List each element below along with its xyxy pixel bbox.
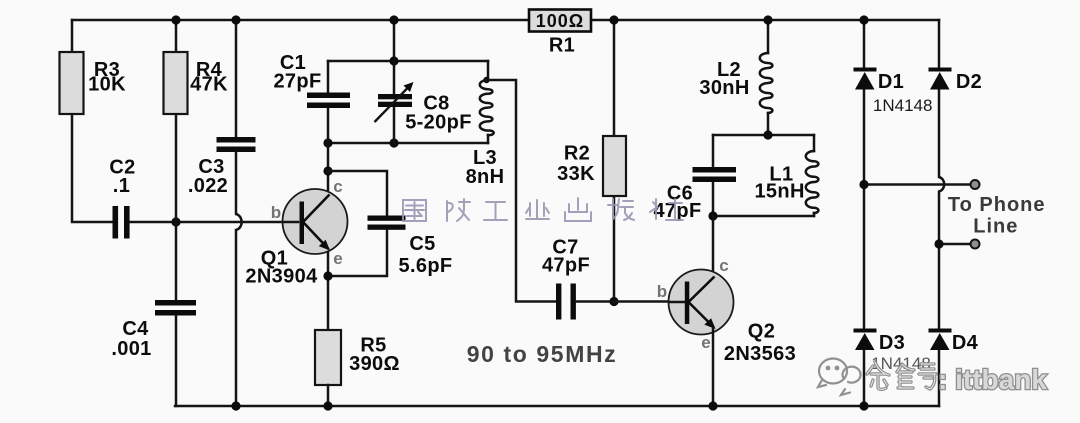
wire top rail right section — [591, 19, 939, 22]
svg-text:b: b — [271, 203, 281, 222]
svg-text:D2: D2 — [956, 71, 982, 93]
svg-text:390Ω: 390Ω — [349, 353, 400, 375]
terminal lower — [971, 240, 980, 249]
diode D2 — [929, 68, 983, 94]
wire L3 tap to C7 — [488, 80, 556, 302]
wire Q1 collector column — [327, 143, 330, 192]
wire C7 to base junction — [576, 300, 614, 303]
wire R2 column — [613, 20, 616, 302]
svg-text:D4: D4 — [952, 332, 979, 354]
svg-text:.022: .022 — [188, 175, 228, 197]
capacitor C2 — [109, 157, 135, 239]
node D1 at top rail — [859, 15, 868, 24]
capacitor C6 — [653, 167, 736, 222]
wire L2 column — [767, 20, 770, 53]
svg-text:10K: 10K — [88, 74, 126, 96]
wire tank feed from rail — [393, 20, 396, 61]
svg-text:33K: 33K — [557, 163, 595, 185]
resistor R1 — [529, 10, 591, 57]
svg-text:47pF: 47pF — [542, 255, 590, 277]
diode D3 — [854, 329, 906, 355]
capacitor C5 — [368, 216, 453, 278]
node tank bottom left — [323, 138, 332, 147]
node C3 line at top rail — [231, 15, 240, 24]
inductor L3 — [466, 61, 505, 188]
wire collector to C5 — [328, 171, 387, 215]
node tank top center — [389, 56, 398, 65]
svg-text:D3: D3 — [879, 332, 905, 354]
watermark chinese characters — [403, 198, 683, 221]
wire C5 bottom to emitter — [328, 230, 387, 276]
wire R4 column — [175, 20, 178, 300]
wire top rail left section — [72, 19, 529, 22]
svg-text:C5: C5 — [409, 233, 435, 255]
svg-text:C4: C4 — [122, 318, 149, 340]
wire C4 to bottom rail — [175, 316, 178, 406]
wire R5 to bottom rail — [327, 385, 330, 406]
wire C8 column — [393, 61, 396, 143]
node phone tap lower at D2 column — [934, 239, 943, 248]
wire base feed to Q2 — [614, 300, 684, 303]
wire phone tap upper — [864, 183, 969, 186]
svg-text:e: e — [701, 333, 710, 352]
svg-text:5.6pF: 5.6pF — [399, 255, 453, 277]
capacitor C1 — [273, 52, 350, 108]
resistor R4 — [164, 52, 229, 114]
capacitor C3 — [188, 137, 256, 197]
capacitor C8 variable — [375, 82, 472, 134]
svg-text:To Phone: To Phone — [948, 194, 1046, 216]
svg-text:15nH: 15nH — [754, 181, 804, 203]
wire Q2 collector column — [712, 216, 715, 274]
wire C3 column upper — [235, 20, 238, 137]
node D1/D3 at bottom rail — [859, 401, 868, 410]
watermark wechat icon — [818, 359, 861, 396]
diode D4 — [929, 329, 979, 355]
terminal upper — [971, 180, 980, 189]
svg-text:30nH: 30nH — [699, 77, 749, 99]
node C3 line at bottom rail — [231, 401, 240, 410]
wire C3 column lower with hop over base wire — [236, 152, 242, 406]
svg-text:8nH: 8nH — [466, 166, 505, 188]
node L2 bottom junction — [763, 130, 772, 139]
wire D2/D4 column with hop over phone tap — [939, 20, 944, 406]
wire left column through R3 — [72, 20, 112, 222]
svg-text:c: c — [333, 177, 342, 196]
svg-text:.1: .1 — [113, 175, 130, 197]
wire C6/L1 bottom link — [713, 215, 814, 218]
svg-text:.001: .001 — [111, 338, 151, 360]
node emitter junction — [323, 271, 332, 280]
node tank bottom center — [389, 138, 398, 147]
resistor R2 — [557, 136, 626, 196]
watermark wechat id text — [867, 362, 936, 389]
node Q2 emitter at bottom rail — [708, 401, 717, 410]
wire Q1 emitter column — [327, 252, 330, 330]
node junction R4/C4 line with base wire — [171, 217, 180, 226]
transistor Q2 — [657, 256, 796, 365]
inductor L2 — [699, 53, 772, 135]
node tank feed at rail — [389, 15, 398, 24]
wire Q2 emitter column — [712, 329, 715, 406]
svg-text:47K: 47K — [190, 74, 228, 96]
svg-text:e: e — [333, 249, 342, 268]
resistor R5 — [315, 330, 400, 385]
svg-text:5-20pF: 5-20pF — [405, 112, 472, 134]
svg-text:90 to 95MHz: 90 to 95MHz — [467, 341, 618, 367]
node R4 line at top rail — [171, 15, 180, 24]
node R5 at bottom rail — [323, 401, 332, 410]
svg-text:2N3904: 2N3904 — [245, 266, 318, 288]
wire bottom rail — [175, 405, 939, 408]
svg-text:2N3563: 2N3563 — [724, 343, 796, 365]
inductor L1 — [754, 135, 818, 216]
svg-text:D1: D1 — [878, 71, 904, 93]
node L2 at top rail — [763, 15, 772, 24]
wire C6 column — [712, 135, 715, 216]
svg-text:1N4148: 1N4148 — [873, 96, 933, 115]
resistor R3 — [60, 52, 127, 114]
transistor Q1 — [245, 177, 347, 288]
svg-text:Line: Line — [973, 216, 1018, 238]
node collector/C5 junction — [323, 166, 332, 175]
svg-text:R1: R1 — [549, 35, 575, 57]
node R2 at top rail — [609, 15, 618, 24]
svg-text:27pF: 27pF — [273, 71, 321, 93]
wire base feed to Q1 — [130, 221, 298, 224]
svg-text:b: b — [657, 282, 667, 301]
node phone tap upper at D1 column — [859, 180, 868, 189]
diode D1 — [854, 68, 905, 94]
node C6/L1/collector junction — [708, 211, 717, 220]
wire L2/C6/L1 top link — [713, 134, 814, 137]
wire tank bottom — [328, 142, 488, 145]
wire D1/D3 column — [863, 20, 866, 406]
capacitor C7 — [542, 237, 590, 320]
svg-text:R2: R2 — [564, 143, 590, 165]
wire tank top — [328, 60, 488, 63]
svg-text:c: c — [719, 256, 728, 275]
svg-text:Q2: Q2 — [748, 321, 775, 343]
wire phone tap lower — [939, 243, 969, 246]
capacitor C4 — [111, 300, 196, 360]
node R2/C7/Q2 base junction — [609, 297, 618, 306]
wire C1 column — [327, 61, 330, 143]
svg-text:100Ω: 100Ω — [536, 11, 584, 31]
svg-text:: ittbank: : ittbank — [938, 364, 1047, 395]
